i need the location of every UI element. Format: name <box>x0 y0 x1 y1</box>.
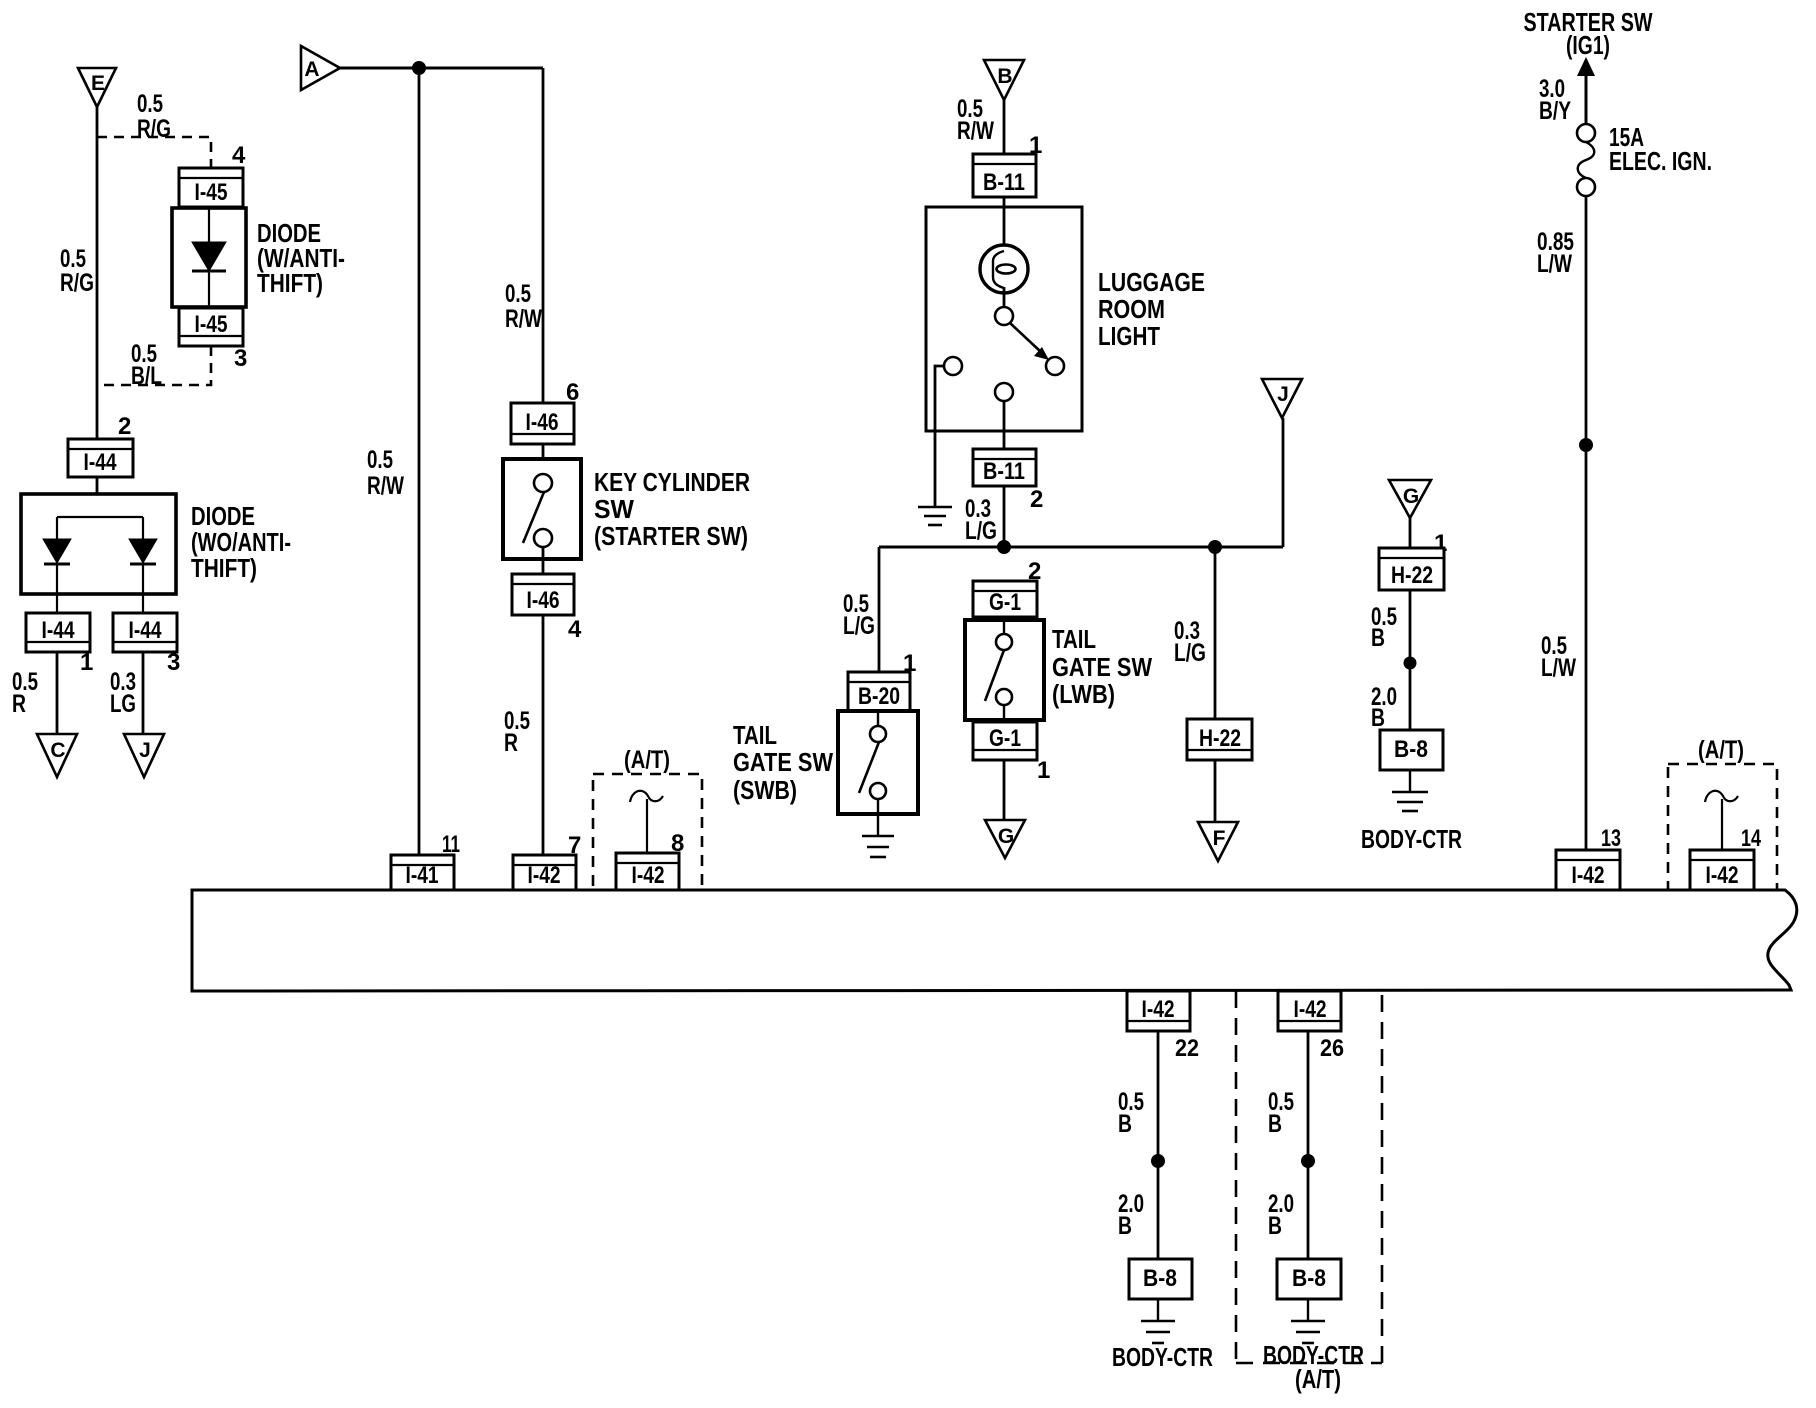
wire A to key cylinder branch <box>340 67 543 70</box>
wire B-11 pin 2 to junction <box>1003 486 1006 547</box>
wire J down to L/G run <box>1282 418 1285 547</box>
connector J (triangle) <box>124 734 164 777</box>
connector I-44 pin 3 <box>113 613 177 652</box>
svg-text:B-11: B-11 <box>983 458 1025 485</box>
connector I-42 pin 26 <box>1278 991 1341 1031</box>
svg-text:(IG1): (IG1) <box>1566 30 1610 60</box>
svg-text:(SWB): (SWB) <box>733 775 797 805</box>
connector I-42 pin 14 <box>1690 850 1754 890</box>
label DIODE (WO/ANTI-THIFT) <box>191 501 291 583</box>
svg-text:L/G: L/G <box>843 612 875 640</box>
label TAIL GATE SW (LWB) <box>1052 624 1152 709</box>
diode assembly (WO/ANTI-THIFT) box <box>21 494 176 594</box>
svg-text:B/Y: B/Y <box>1539 97 1571 125</box>
junction node (splice) <box>1404 657 1417 670</box>
junction node (splice) <box>1301 1154 1315 1168</box>
svg-text:KEY CYLINDER: KEY CYLINDER <box>594 467 750 497</box>
svg-text:22: 22 <box>1175 1035 1199 1062</box>
svg-text:I-42: I-42 <box>1706 862 1739 889</box>
svg-text:C: C <box>50 739 65 762</box>
ground (BODY-CTR right) <box>1409 770 1411 792</box>
arrow to STARTER SW <box>1577 57 1595 76</box>
svg-text:R/G: R/G <box>137 115 171 143</box>
wire G-1 to G <box>1003 760 1006 820</box>
svg-text:I-46: I-46 <box>527 587 560 614</box>
svg-text:G: G <box>998 825 1014 848</box>
wire I-46 pin 4 to I-42 pin 7 <box>542 615 545 855</box>
junction node on A wire <box>412 61 426 75</box>
svg-text:(A/T): (A/T) <box>1698 736 1744 764</box>
ground (BODY-CTR A/T) <box>1307 1299 1309 1321</box>
svg-text:2: 2 <box>118 413 131 440</box>
wire B to B-11 pin 1 <box>1003 100 1006 154</box>
svg-text:H-22: H-22 <box>1199 725 1241 752</box>
svg-text:I-42: I-42 <box>1142 996 1175 1023</box>
svg-text:0.5: 0.5 <box>505 280 531 308</box>
svg-text:(LWB): (LWB) <box>1052 679 1115 709</box>
fuse F1 15A ELEC. IGN. <box>1577 124 1595 196</box>
svg-text:G: G <box>1403 485 1419 508</box>
connector I-42 pin 13 <box>1556 850 1620 890</box>
svg-text:B: B <box>1118 1212 1132 1240</box>
svg-text:THIFT): THIFT) <box>191 553 257 583</box>
connector I-42 pin 8 <box>616 853 679 890</box>
dashed wire to I-45 pin 4 <box>97 137 211 168</box>
connector H-22 pin 1 <box>1379 548 1444 590</box>
svg-text:R/W: R/W <box>367 472 404 500</box>
wire G to H-22 <box>1409 518 1412 548</box>
svg-text:ELEC. IGN.: ELEC. IGN. <box>1609 146 1712 176</box>
svg-text:G-1: G-1 <box>989 725 1021 752</box>
svg-text:3: 3 <box>234 345 247 372</box>
diode D3 (right) <box>129 517 157 613</box>
svg-text:14: 14 <box>1741 825 1761 852</box>
svg-text:(A/T): (A/T) <box>624 746 670 774</box>
wire down to I-46 pin 6 <box>542 68 545 403</box>
switch contact (case) <box>944 357 962 375</box>
label LUGGAGE ROOM LIGHT <box>1098 267 1205 351</box>
switch contact (bottom) <box>995 383 1013 401</box>
wire node down to H-22 <box>1214 547 1217 719</box>
svg-text:1: 1 <box>80 649 93 676</box>
diode D1 (W/ANTI-THIFT) <box>172 208 246 307</box>
svg-text:B-20: B-20 <box>858 683 900 710</box>
(A/T) dashed option box left <box>593 746 702 892</box>
svg-text:L/G: L/G <box>965 517 997 545</box>
svg-text:B: B <box>1371 624 1385 652</box>
ground (BODY-CTR bottom left) <box>1157 1299 1159 1321</box>
svg-text:G-1: G-1 <box>989 589 1021 616</box>
ground block B-8 (bottom right) <box>1277 1259 1341 1299</box>
junction node (splice) <box>1151 1154 1165 1168</box>
wire lamp to switch contact <box>1003 287 1006 307</box>
pigtail wire (A/T right) <box>1705 791 1738 850</box>
ground (luggage room light) <box>918 507 952 525</box>
wire fuse to I-42 pin 13 <box>1585 196 1588 850</box>
svg-text:4: 4 <box>568 616 582 643</box>
connector I-42 pin 8 (front) <box>616 853 679 890</box>
wire I-42 pin 22 to B-8 <box>1157 1031 1160 1259</box>
connector F (triangle) <box>1198 822 1238 861</box>
svg-text:J: J <box>1277 383 1289 406</box>
svg-text:4: 4 <box>232 142 246 169</box>
svg-text:TAIL: TAIL <box>1052 624 1096 654</box>
svg-text:2: 2 <box>1030 486 1043 513</box>
connector I-46 pin 6 <box>511 403 574 444</box>
junction node (H-22 tap) <box>1208 540 1222 554</box>
label TAIL GATE SW (SWB) <box>733 720 833 805</box>
pigtail wire (A/T left) <box>630 791 663 853</box>
tail gate switch SW3 (LWB) <box>965 617 1044 722</box>
connector I-42 pin 13 (front) <box>1556 850 1620 890</box>
(A/T) dashed option box bottom <box>1236 991 1382 1363</box>
svg-text:E: E <box>91 72 105 95</box>
wire I-44 pin 1 to C <box>56 652 59 734</box>
label STARTER SW (IG1) <box>1524 7 1653 60</box>
dashed wire I-45 pin 3 to main wire <box>97 346 211 385</box>
svg-text:L/G: L/G <box>1174 639 1206 667</box>
connector I-45 pin 4 <box>179 168 243 207</box>
svg-text:(A/T): (A/T) <box>1295 1364 1341 1394</box>
connector G-1 pin 2 <box>973 581 1037 617</box>
svg-text:I-42: I-42 <box>1572 862 1605 889</box>
wire arrow to fuse <box>1585 74 1588 124</box>
wire I-44 pin 3 to J <box>142 652 145 734</box>
connector I-41 pin 11 (front) <box>391 855 454 890</box>
connector I-42 pin 7 (front) <box>513 855 576 890</box>
svg-text:B: B <box>1268 1110 1282 1138</box>
svg-text:I-42: I-42 <box>1294 996 1327 1023</box>
wire I-44 pin 2 into diode assembly <box>96 477 99 517</box>
svg-text:I-46: I-46 <box>526 409 559 436</box>
diode D2 (left) <box>43 517 71 613</box>
connector B-11 pin 1 <box>973 154 1036 197</box>
connector I-41 pin 11 <box>391 855 454 890</box>
svg-text:A: A <box>304 58 319 81</box>
svg-text:0.5: 0.5 <box>367 446 393 474</box>
svg-text:(STARTER SW): (STARTER SW) <box>594 521 748 551</box>
svg-text:THIFT): THIFT) <box>257 268 323 298</box>
svg-text:B-8: B-8 <box>1143 1265 1177 1292</box>
svg-text:3: 3 <box>167 649 180 676</box>
tail gate switch SW2 (SWB) <box>838 711 918 814</box>
svg-text:B: B <box>1371 704 1385 732</box>
svg-text:LUGGAGE: LUGGAGE <box>1098 267 1205 297</box>
svg-text:1: 1 <box>1037 757 1050 784</box>
connector G (triangle mid) <box>985 820 1025 858</box>
wire I-46 to key cylinder switch <box>542 444 545 474</box>
label 15A ELEC. IGN. <box>1609 122 1712 176</box>
switch blade with arrow <box>1010 323 1049 360</box>
svg-text:SW: SW <box>594 494 634 524</box>
connector I-42 pin 14 (front) <box>1690 850 1754 890</box>
connector I-45 pin 3 <box>179 308 243 346</box>
wire node down to I-41 pin 11 <box>418 68 421 855</box>
wire switch to I-46 pin 4 <box>542 547 545 574</box>
svg-text:R: R <box>12 690 26 718</box>
label KEY CYLINDER SW (STARTER SW) <box>594 467 750 551</box>
wire into lamp <box>1003 197 1006 252</box>
luggage room light case <box>926 207 1082 431</box>
junction node (L/W) <box>1579 438 1593 452</box>
switch contact (common) <box>995 307 1013 325</box>
svg-text:I-42: I-42 <box>632 862 665 889</box>
svg-text:ROOM: ROOM <box>1098 294 1165 324</box>
svg-text:R/W: R/W <box>957 117 994 145</box>
svg-text:R/G: R/G <box>60 269 94 297</box>
svg-text:I-42: I-42 <box>528 862 561 889</box>
connector G (triangle right) <box>1389 480 1431 518</box>
ground block B-8 (bottom left) <box>1129 1259 1192 1299</box>
svg-text:R/W: R/W <box>505 305 542 333</box>
connector E (triangle) <box>78 68 116 107</box>
svg-text:I-44: I-44 <box>129 617 163 644</box>
connector I-44 pin 1 <box>26 613 90 652</box>
svg-text:I-45: I-45 <box>195 179 228 206</box>
label BODY-CTR (A/T) <box>1263 1340 1364 1394</box>
connector B (triangle) <box>984 60 1024 100</box>
svg-text:I-41: I-41 <box>406 862 439 889</box>
lamp L1 (bulb with filament) <box>980 245 1028 293</box>
svg-text:26: 26 <box>1320 1035 1344 1062</box>
wire H-22 to F <box>1214 760 1217 822</box>
key cylinder switch SW1 <box>503 459 581 559</box>
wire bottom contact to B-11 pin 2 <box>1003 401 1006 449</box>
svg-text:J: J <box>139 739 151 762</box>
connector J (triangle mid) <box>1262 379 1302 418</box>
connector G-1 pin 1 <box>973 722 1037 760</box>
connector I-42 pin 22 <box>1127 991 1190 1031</box>
ground (tail gate SWB) <box>877 814 879 836</box>
label DIODE (W/ANTI-THIFT) <box>257 218 345 298</box>
svg-text:GATE SW: GATE SW <box>1052 652 1152 682</box>
svg-text:H-22: H-22 <box>1391 562 1433 589</box>
connector B-20 pin 1 <box>848 672 910 711</box>
junction node (L/G) <box>997 540 1011 554</box>
svg-text:B-8: B-8 <box>1394 736 1428 763</box>
svg-text:B: B <box>1118 1110 1132 1138</box>
connector B-11 pin 2 <box>973 449 1036 486</box>
svg-text:B/L: B/L <box>131 362 162 390</box>
svg-text:B: B <box>997 65 1012 88</box>
svg-text:BODY-CTR: BODY-CTR <box>1361 824 1462 854</box>
svg-text:I-45: I-45 <box>195 311 228 338</box>
svg-text:F: F <box>1213 827 1226 850</box>
svg-text:GATE SW: GATE SW <box>733 747 833 777</box>
switch contact (thrown) <box>1046 357 1064 375</box>
svg-text:BODY-CTR: BODY-CTR <box>1112 1342 1213 1372</box>
connector I-42 pin 7 <box>513 855 576 890</box>
wire case contact to ground <box>935 366 944 507</box>
connector A (triangle) <box>301 46 340 90</box>
wire horizontal L/G run <box>879 546 1283 549</box>
svg-text:L/W: L/W <box>1537 250 1572 278</box>
svg-text:LG: LG <box>110 690 136 718</box>
connector H-22 (to F) <box>1187 719 1252 760</box>
svg-text:TAIL: TAIL <box>733 720 777 750</box>
svg-text:B-11: B-11 <box>983 169 1025 196</box>
wire left branch down to B-20 <box>878 547 881 672</box>
svg-text:13: 13 <box>1601 825 1621 852</box>
connector I-46 pin 4 <box>512 574 574 615</box>
wire E to I-44 pin 2 <box>96 107 99 439</box>
ground block B-8 (right) <box>1380 730 1443 770</box>
svg-text:I-44: I-44 <box>42 617 76 644</box>
svg-text:LIGHT: LIGHT <box>1098 321 1160 351</box>
svg-text:I-44: I-44 <box>84 449 118 476</box>
wire I-42 pin 26 to B-8 <box>1307 1031 1310 1259</box>
svg-text:B-8: B-8 <box>1292 1265 1326 1292</box>
wire H-22 to B-8 <box>1409 590 1412 730</box>
(A/T) dashed option box right <box>1668 736 1777 890</box>
svg-text:0.5: 0.5 <box>137 90 163 118</box>
svg-text:R: R <box>504 729 518 757</box>
svg-text:L/W: L/W <box>1541 654 1576 682</box>
connector I-44 pin 2 <box>68 439 133 477</box>
svg-text:B: B <box>1268 1212 1282 1240</box>
connector C (triangle) <box>37 734 77 777</box>
wire harness trunk (bus) <box>192 890 1797 991</box>
